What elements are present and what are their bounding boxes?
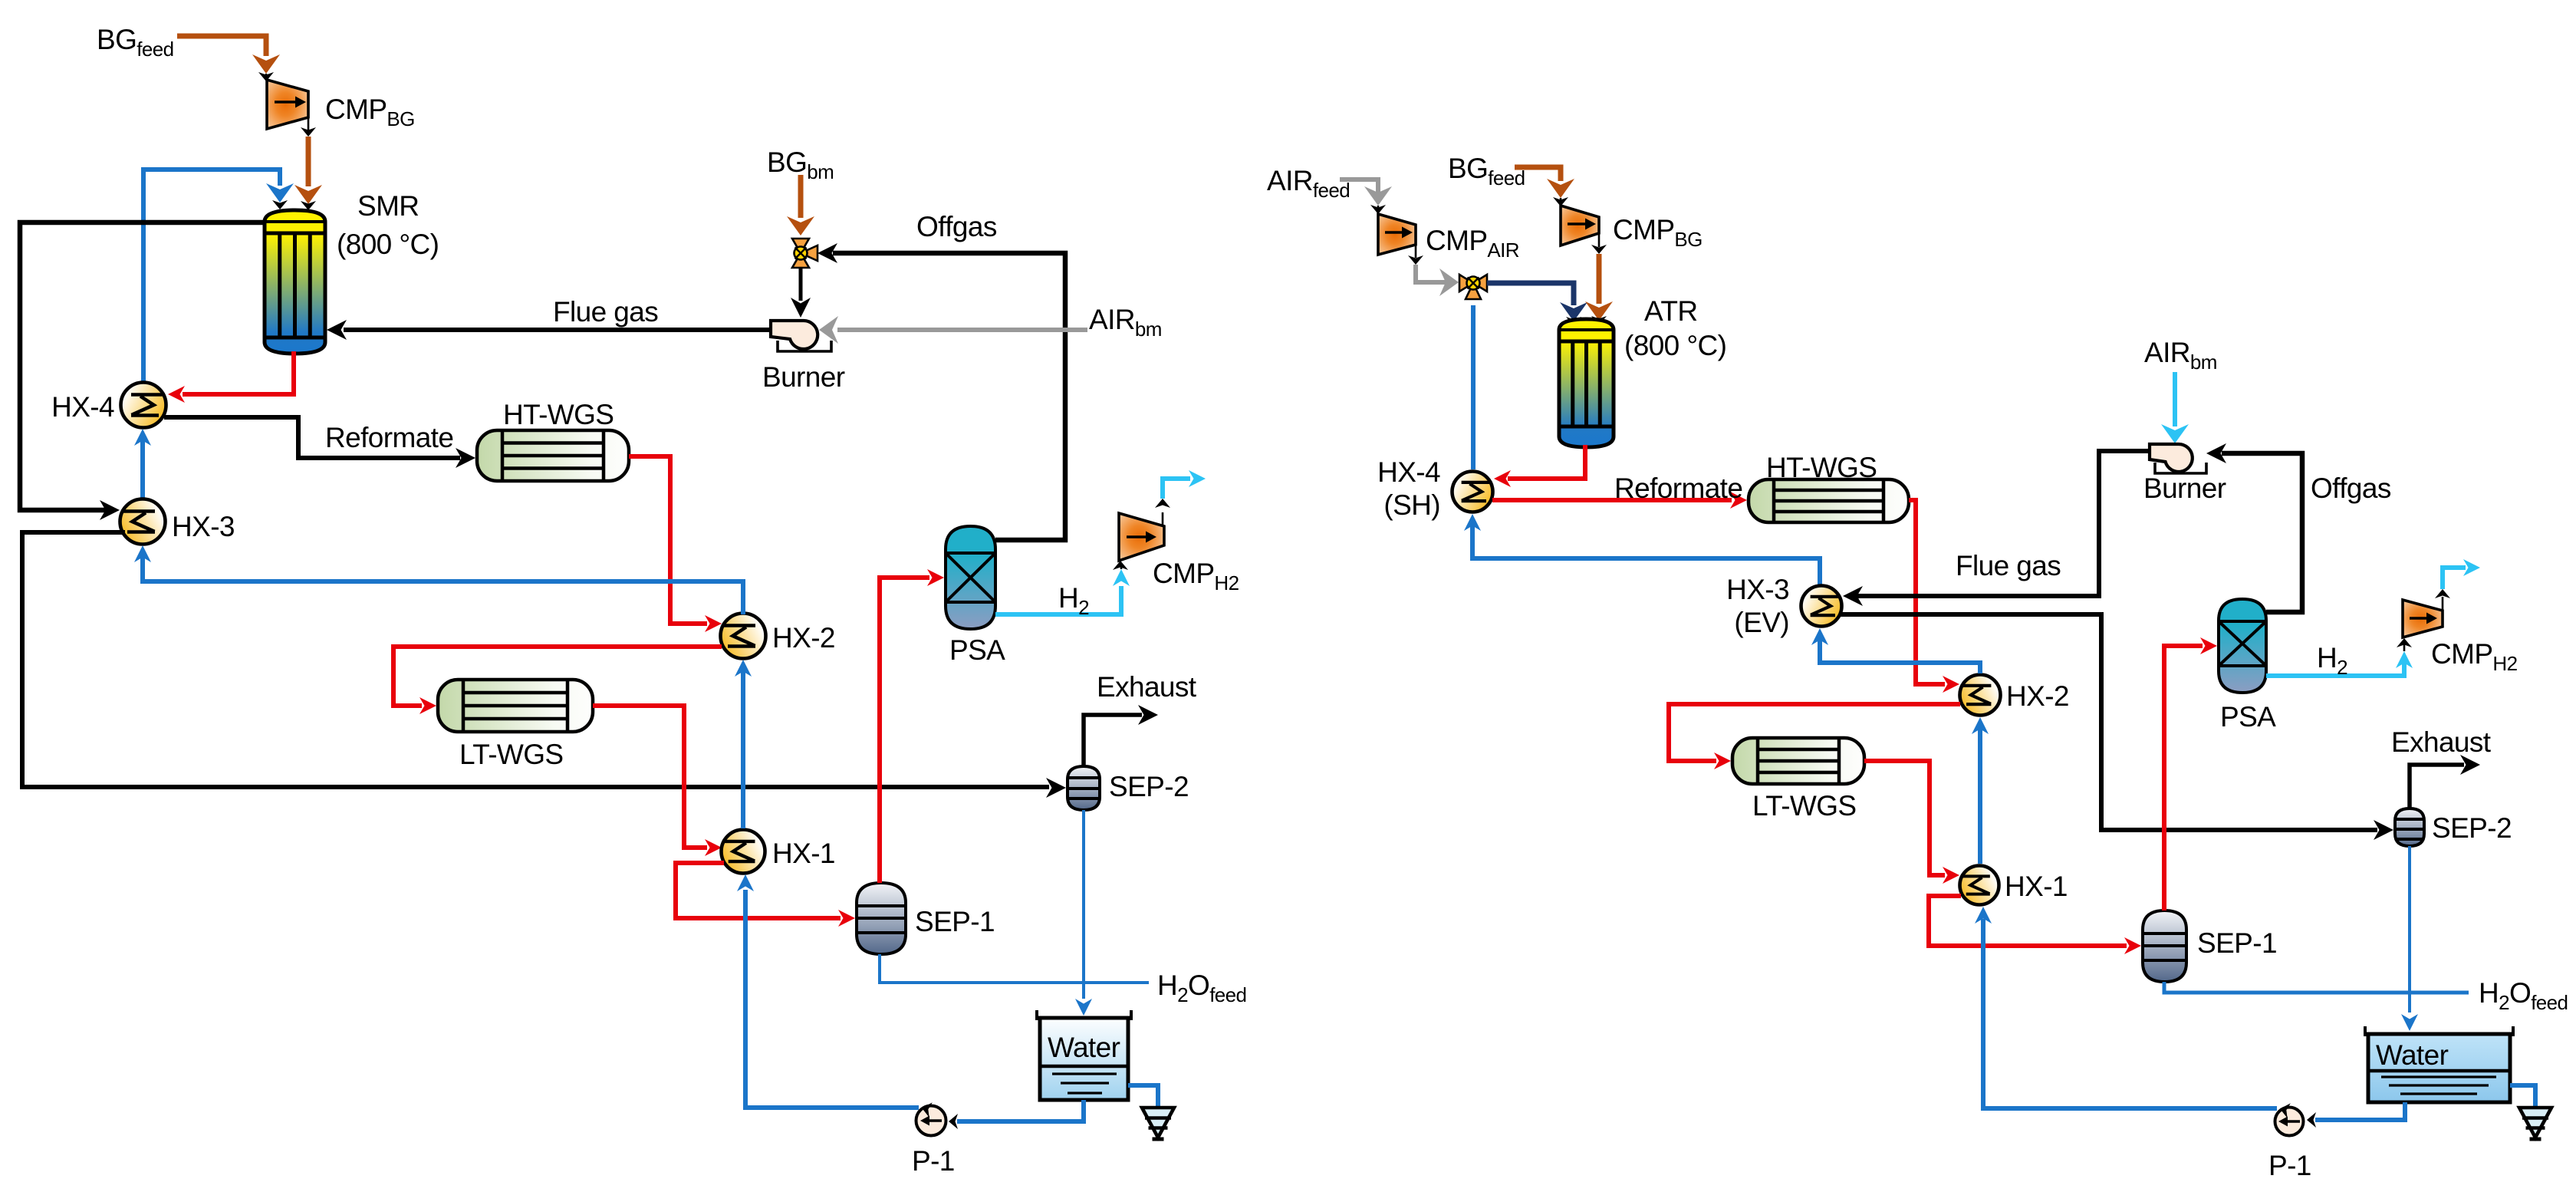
wire AIR_bm gray into burner xyxy=(837,328,1087,332)
separator SEP-1 xyxy=(857,883,906,954)
wire red HX-1 to SEP-1 (right) xyxy=(1929,896,2127,946)
svg-text:Exhaust: Exhaust xyxy=(1097,671,1197,703)
wire red HX-2 to LT-WGS xyxy=(393,647,722,706)
svg-text:SEP-1: SEP-1 xyxy=(915,906,995,937)
wire navy mixed air to ATR xyxy=(1487,283,1574,305)
svg-text:Flue gas: Flue gas xyxy=(553,296,658,328)
svg-text:ATR: ATR xyxy=(1644,295,1697,327)
wire CMP_BG outlet to SMR xyxy=(308,117,310,132)
heat-exchanger HX-4 xyxy=(121,383,166,428)
reactor LT-WGS (right) xyxy=(1732,738,1864,784)
svg-text:PSA: PSA xyxy=(2220,701,2276,733)
wire pump to HX-1 xyxy=(745,890,919,1108)
wire red HT-WGS to HX-2 (right) xyxy=(1909,500,1945,684)
svg-text:(SH): (SH) xyxy=(1383,489,1440,521)
drain (left) xyxy=(1142,1108,1174,1138)
wire red HX-1 to SEP-1 xyxy=(676,863,841,918)
wire CMP_AIR outlet to valve xyxy=(1415,245,1417,258)
compressor CMP_AIR xyxy=(1378,214,1416,255)
heat-exchanger HX-4 (SH) xyxy=(1452,472,1493,512)
wire steam HX-2 to HX-3 xyxy=(143,557,743,614)
wire SMR jacket outlet to HX-3 xyxy=(20,222,265,510)
wire red HX-2 to LT-WGS (right) xyxy=(1669,704,1960,761)
svg-text:HT-WGS: HT-WGS xyxy=(503,399,614,430)
separator SEP-1 (right) xyxy=(2143,910,2186,982)
svg-text:HX-4: HX-4 xyxy=(1377,456,1440,488)
drain (right) xyxy=(2519,1108,2551,1138)
tank Water (right) xyxy=(2368,1034,2510,1102)
wire CMP_BG outlet to ATR xyxy=(1598,233,1601,247)
wire water SEP-2 to tank xyxy=(1082,810,1085,999)
svg-text:P-1: P-1 xyxy=(912,1145,955,1177)
svg-text:Reformate: Reformate xyxy=(325,422,453,453)
burner (right) xyxy=(2150,444,2193,472)
heat-exchanger HX-3 xyxy=(120,499,166,545)
wire red SEP-1 to PSA xyxy=(880,578,929,883)
svg-text:HX-2: HX-2 xyxy=(2006,680,2069,712)
svg-text:SEP-1: SEP-1 xyxy=(2197,927,2277,959)
wire valve to burner xyxy=(799,268,803,301)
wire exhaust from SEP-2 xyxy=(1084,715,1142,767)
svg-text:HX-4: HX-4 xyxy=(51,391,114,423)
wire offgas PSA to burner (right) xyxy=(2222,453,2302,612)
heat-exchanger HX-3 (EV) xyxy=(1801,586,1842,627)
reactor ATR xyxy=(1559,319,1614,447)
wire BG_feed brown into CMP_BG (right) xyxy=(1515,167,1561,181)
svg-text:Exhaust: Exhaust xyxy=(2391,726,2492,758)
svg-text:Offgas: Offgas xyxy=(2311,473,2391,504)
heat-exchanger HX-1 xyxy=(722,830,765,874)
svg-text:Water: Water xyxy=(2376,1039,2449,1071)
svg-text:Burner: Burner xyxy=(2143,473,2226,504)
wire H2 product out xyxy=(1162,512,1164,526)
heat-exchanger HX-2 (right) xyxy=(1960,675,2001,716)
svg-text:(EV): (EV) xyxy=(1734,607,1789,638)
wire flue gas HX-3 (EV) to SEP-2 (right) xyxy=(1841,614,2377,830)
compressor CMP_H2 (right) xyxy=(2403,600,2443,637)
wire red LT-WGS to HX-1 (right) xyxy=(1864,761,1945,875)
svg-text:SMR: SMR xyxy=(357,190,419,222)
wire steam HX-1 to HX-2 (right) xyxy=(1978,727,1982,864)
svg-text:Reformate: Reformate xyxy=(1614,473,1742,504)
wire black reformate HX-4 to HT-WGS xyxy=(164,417,460,458)
wire AIR_bm cyan into burner (right) xyxy=(2173,372,2177,426)
wire H2 product out (right) xyxy=(2442,597,2444,611)
wire red reformate SMR bottom to HX-4 xyxy=(183,351,294,394)
wire tank to pump (right) xyxy=(2315,1102,2405,1120)
wire flue gas burner to HX-3 (EV) xyxy=(1857,451,2150,596)
wire flue gas from burner into SMR xyxy=(344,328,771,332)
separator SEP-2 (right) xyxy=(2395,808,2424,846)
wire H2 cyan PSA to CMP_H2 xyxy=(995,586,1121,614)
wire exhaust from SEP-2 (right) xyxy=(2410,765,2464,809)
svg-text:Offgas: Offgas xyxy=(916,211,997,242)
compressor CMP_BG xyxy=(267,80,308,129)
wire tank to drain xyxy=(1128,1085,1158,1107)
wire steam into valve from HX-4 (SH) xyxy=(1471,305,1476,469)
wire red Reformate HX-4 (SH) to HT-WGS xyxy=(1492,498,1732,502)
svg-text:(800 °C): (800 °C) xyxy=(337,229,439,260)
wire H2 cyan PSA to CMP_H2 (right) xyxy=(2266,663,2404,676)
valve three-way (right) xyxy=(1459,275,1487,299)
wire tank to pump xyxy=(957,1100,1084,1121)
wire tank to drain (right) xyxy=(2510,1085,2535,1107)
compressor CMP_BG (right) xyxy=(1561,206,1599,245)
svg-text:HX-1: HX-1 xyxy=(2005,871,2068,902)
wire steam HX-3 (EV) to HX-4 (SH) xyxy=(1472,525,1820,588)
wire steam HX-2 to HX-3 (EV) xyxy=(1820,638,1980,673)
svg-text:P-1: P-1 xyxy=(2268,1150,2311,1181)
wire pump to HX-1 (right) xyxy=(1983,919,2277,1108)
svg-text:SEP-2: SEP-2 xyxy=(2432,812,2512,844)
svg-text:Burner: Burner xyxy=(762,361,845,393)
reactor LT-WGS xyxy=(438,680,593,732)
wire offgas PSA to valve xyxy=(833,253,1065,540)
tank Water (left) xyxy=(1040,1018,1128,1100)
wire red ATR bottom to HX-4 (SH) xyxy=(1508,445,1585,479)
heat-exchanger HX-1 (right) xyxy=(1960,866,1999,905)
wire red SEP-1 to PSA (right) xyxy=(2164,646,2203,910)
svg-text:Water: Water xyxy=(1048,1032,1120,1063)
compressor CMP_H2 xyxy=(1119,513,1164,561)
svg-text:LT-WGS: LT-WGS xyxy=(1752,790,1857,822)
burner (left) xyxy=(771,321,818,349)
wire AIR_feed gray into CMP_AIR xyxy=(1340,179,1378,193)
wire water SEP-1 bottom + H2O_feed xyxy=(880,954,1149,983)
svg-text:(800 °C): (800 °C) xyxy=(1624,330,1726,361)
svg-text:HX-1: HX-1 xyxy=(772,838,835,869)
pump P-1 (right) xyxy=(2275,1108,2304,1136)
reactor HT-WGS xyxy=(477,430,629,481)
svg-text:LT-WGS: LT-WGS xyxy=(459,739,564,770)
wire flue gas HX-3 to SEP-2 xyxy=(22,532,1049,787)
wire red LT-WGS to HX-1 xyxy=(593,706,707,848)
wire water SEP-2 to tank (right) xyxy=(2408,846,2411,1013)
wire BG_bm brown into valve xyxy=(798,175,804,218)
svg-text:SEP-2: SEP-2 xyxy=(1109,771,1189,802)
svg-text:HX-3: HX-3 xyxy=(172,511,235,542)
svg-text:PSA: PSA xyxy=(949,634,1005,666)
heat-exchanger HX-2 xyxy=(721,614,766,659)
wire red HT-WGS to HX-2 xyxy=(629,456,707,624)
wire steam HX-3 to HX-4 xyxy=(140,440,145,500)
reactor HT-WGS (right) xyxy=(1749,479,1909,522)
adsorber PSA (right) xyxy=(2219,599,2266,693)
svg-text:Flue gas: Flue gas xyxy=(1956,550,2061,581)
pump P-1 (left) xyxy=(916,1106,946,1136)
wire BG_feed brown line into CMP_BG xyxy=(177,36,266,56)
wire steam HX-1 to HX-2 xyxy=(741,670,745,828)
adsorber PSA xyxy=(946,526,995,629)
separator SEP-2 xyxy=(1068,766,1100,810)
svg-text:HX-2: HX-2 xyxy=(772,622,835,654)
wire steam blue line into SMR top xyxy=(143,170,280,388)
wire water SEP-1 bottom + H2O_feed (right) xyxy=(2164,982,2469,993)
reactor SMR xyxy=(265,210,325,354)
svg-text:HT-WGS: HT-WGS xyxy=(1766,452,1877,483)
svg-text:HX-3: HX-3 xyxy=(1726,574,1789,605)
valve three-way xyxy=(792,239,818,268)
